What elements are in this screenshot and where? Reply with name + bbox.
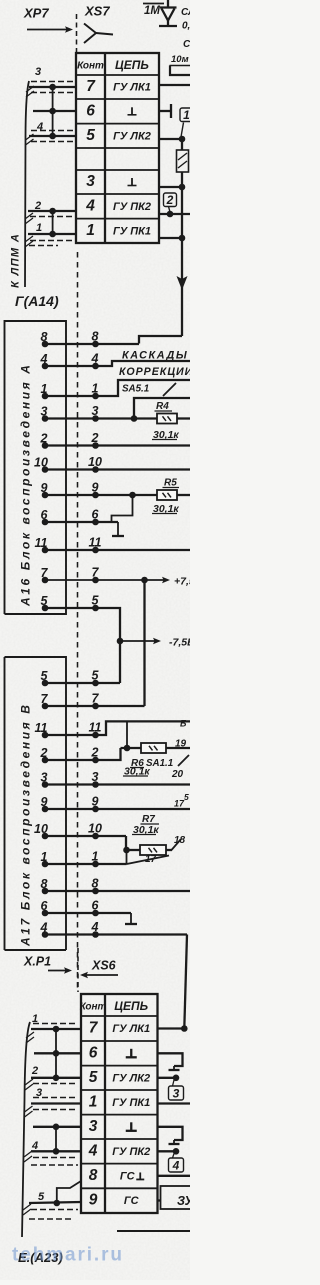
table XS6 row 5 ГУ ЛК2: [89, 1069, 150, 1086]
wire tag 1: [180, 108, 193, 137]
svg-text:ГУ ЛК2: ГУ ЛК2: [112, 1072, 150, 1084]
wire row4 ГУ ПК2 to right edge: [159, 211, 190, 218]
signal wire down to КАСКАДЫ (arrow): [139, 238, 188, 344]
label Е.(А23): [18, 1250, 63, 1265]
cable trunk (bottom): [22, 1022, 30, 1237]
value R5 30,1к: [152, 503, 179, 515]
table XS6 row 6 ⊥: [89, 1044, 137, 1061]
table XS7 row 7 ГУ ЛК1: [86, 78, 151, 95]
svg-text:А17 Блок воспроизведения В: А17 Блок воспроизведения В: [19, 702, 33, 947]
resistor R6: [141, 743, 190, 753]
wire A16 pin8 (from КАСКАДЫ line): [42, 341, 139, 348]
pin 3 (A17) labels: [41, 770, 99, 785]
label А16 Блок воспроизведения А: [19, 362, 33, 607]
shielded wire pin4 to row4: [31, 1148, 81, 1158]
shield link B: [52, 211, 54, 234]
svg-text:КАСКАДЫ: КАСКАДЫ: [122, 350, 188, 362]
table XS6 row 7 ГУ ЛК1: [89, 1020, 150, 1037]
svg-text:Б: Б: [180, 719, 187, 729]
wire A16 pin11: [42, 547, 190, 554]
shielded wire pin2 to row4: [28, 208, 76, 217]
svg-text:5: 5: [86, 127, 95, 144]
switch SA5.1 label: [122, 383, 176, 396]
svg-text:ГУ ЛК1: ГУ ЛК1: [112, 1023, 150, 1035]
table XS6 header КОНТ/ЦЕПЬ: [80, 999, 149, 1013]
connector XP7 label: [23, 6, 49, 21]
pin 3 (A16) labels: [41, 404, 99, 419]
wire A17 pin11 to SA1.1: [42, 721, 190, 738]
wire A16 pin4 to КАСКАДЫ КОРРЕКЦИИ: [42, 361, 190, 369]
table XS7 row 4 ГУ ПК2: [85, 197, 151, 214]
shield link D: [55, 1127, 57, 1152]
value R6 30,1к: [123, 766, 150, 778]
pin 7 (A17) labels: [41, 692, 100, 707]
wire row6 left (XS6): [34, 1052, 81, 1054]
pin 5 label (XP1): [38, 1191, 45, 1203]
label С2 (cut): [183, 39, 196, 50]
wire A16 pin5 to -7,5V: [42, 605, 124, 683]
contact 17 label (lower): [145, 854, 157, 865]
pin 11 (A16) labels: [35, 536, 102, 551]
table XS6 row 4 ГУ ПК2: [88, 1142, 151, 1159]
wire R7 junction down to pin1: [126, 850, 128, 864]
shielded wire pin1 to row1: [28, 231, 76, 246]
shielded wire pin3 to row1: [31, 1098, 81, 1110]
switch SA1.2 lever to 18: [172, 839, 182, 850]
svg-text:СЛ: СЛ: [181, 7, 190, 18]
resistor R4: [155, 401, 191, 424]
svg-text:2: 2: [166, 193, 174, 207]
resistor on right edge (hatched, cut): [177, 139, 189, 187]
pin 1 (A16) labels: [41, 382, 99, 397]
svg-text:3: 3: [35, 66, 41, 78]
pin 3 label: [35, 66, 41, 78]
pin 3 label (XP1): [36, 1087, 42, 1099]
wire tag 2: [164, 193, 177, 212]
svg-text:17: 17: [145, 854, 157, 865]
svg-text:+7,5В: +7,5В: [174, 576, 190, 588]
table XS7 header КОНТ/ЦЕПЬ: [77, 58, 149, 72]
pin 1 label (XP1): [32, 1013, 38, 1025]
wire A17 pin10 to R7: [42, 833, 172, 855]
shielded wire pin5 to row9: [29, 1202, 81, 1219]
label 0,5 (cut): [182, 21, 196, 32]
pin 4 (A16) labels: [40, 352, 99, 367]
wire row5 ГУ ЛК2: [159, 136, 185, 143]
svg-text:ЦЕПЬ: ЦЕПЬ: [114, 999, 148, 1013]
wire A17 pin8: [42, 888, 190, 895]
pin 9 (A17) labels: [41, 795, 99, 810]
pin 1 (A17) labels: [41, 850, 99, 865]
label R6 SA1.1: [130, 758, 173, 769]
svg-text:ГУ ПК1: ГУ ПК1: [113, 225, 151, 237]
wire A16 pin2: [42, 442, 190, 449]
wire A16 pin9 to R5: [42, 490, 190, 500]
switch lever to 17: [127, 856, 170, 865]
label +7,5В (cut): [174, 576, 203, 588]
wire A16 pin1 to SA5.1: [42, 380, 190, 399]
wire row6 left: [33, 110, 76, 112]
pin 11 (A17) labels: [35, 721, 102, 736]
wire A16 pin3 to R4: [42, 398, 190, 422]
table XS7 row 3 ⊥: [86, 173, 136, 190]
svg-text:ГУ ЛК2: ГУ ЛК2: [113, 130, 151, 142]
label КАСКАДЫ: [122, 350, 188, 362]
shielded wire pin4 to row5: [29, 131, 76, 142]
cable hatch marks: [25, 86, 34, 247]
shielded wire pin2 to row5: [31, 1075, 81, 1084]
contact 19 label: [175, 739, 187, 750]
shielded wire pin1 to row7: [31, 1024, 81, 1033]
connector XP7 plug arrow: [27, 26, 73, 32]
table XS6 row 1 ГУ ПК1: [89, 1093, 151, 1110]
connector XS6 label: [91, 959, 117, 973]
pin 10 (A16) labels: [34, 455, 102, 470]
contact 20 label: [171, 769, 184, 780]
wire row1 ГУ ПК1: [159, 237, 182, 239]
label 10мк (cut): [170, 54, 191, 66]
table XS6 row 3 ⊥: [89, 1118, 137, 1135]
wire XS6 row9 ГС to box: [158, 1199, 161, 1201]
pin 2 (A17) labels: [40, 746, 99, 761]
table XS6 row 9 ГС: [89, 1192, 140, 1209]
wire A17 pin5 (-7,5V): [42, 680, 120, 687]
wire A17 pin1: [42, 861, 127, 868]
resistor value 1М (cut): [143, 4, 164, 18]
wire A17 pin4 down to XS6 row7: [42, 931, 187, 1028]
connector XS6 mating dashed line: [77, 948, 79, 992]
pin 8 (A17) labels: [41, 877, 99, 892]
pin 4 label: [36, 121, 43, 133]
svg-text:2: 2: [31, 1065, 38, 1077]
svg-text:ХР7: ХР7: [23, 6, 49, 21]
pin 9 (A16) labels: [41, 481, 99, 496]
svg-text:ЗУ: ЗУ: [177, 1194, 190, 1208]
wire from 10мк stub to right edge: [170, 66, 190, 76]
table XS7 row 5 ГУ ЛК2: [86, 127, 151, 144]
table XS7 frame: [76, 53, 159, 243]
connector XP1 plug arrow: [48, 967, 72, 973]
wire R5 return to ground pin6: [112, 495, 133, 522]
table XS7 row 1 ГУ ПК1: [86, 222, 151, 239]
pin 10 (A17) labels: [34, 822, 102, 837]
pin 2 (A16) labels: [40, 431, 99, 446]
svg-text:К ЛПМ А: К ЛПМ А: [10, 233, 22, 288]
label -7,5В (cut): [169, 637, 195, 649]
svg-text:ГС: ГС: [120, 1170, 136, 1182]
pin 8 (A16) labels: [41, 330, 99, 345]
wire A17 pin7 (+7,5V): [42, 703, 145, 710]
wire XS6 row4 tag 4: [158, 1148, 184, 1173]
block A16 boundary: [5, 321, 67, 614]
label СЛ (cut): [181, 7, 196, 18]
contact mark 5 (cut): [184, 792, 189, 802]
svg-text:5: 5: [38, 1191, 45, 1203]
wire junction to row1: [179, 187, 186, 241]
switch SA1.1 lever: [178, 755, 189, 766]
pin 5 (A16) labels: [41, 594, 100, 609]
pin 2 label: [34, 200, 41, 212]
wire A16 pin7 to +7,5V: [42, 577, 170, 584]
wire -7,5V feed: [120, 638, 161, 644]
svg-text:Конт: Конт: [80, 1002, 107, 1013]
shield link C: [53, 1029, 60, 1078]
svg-text:4: 4: [88, 1142, 98, 1159]
wire XS6 row7: [158, 1025, 188, 1032]
wire XS6 row1 ГУ ПК1: [158, 1102, 191, 1104]
value R7 30,1к: [132, 824, 159, 836]
svg-text:Конт: Конт: [77, 61, 104, 72]
wire row3 left (XS6): [33, 1124, 81, 1131]
svg-text:tehmari.ru: tehmari.ru: [12, 1245, 124, 1266]
svg-text:20: 20: [171, 769, 184, 780]
wire row7 ГУ ЛК1 to right edge: [159, 84, 190, 86]
watermark tehmari.ru: [12, 1245, 124, 1266]
svg-text:ГС: ГС: [124, 1195, 140, 1207]
svg-text:3: 3: [89, 1118, 98, 1135]
connector dashed line (А16/А17 to X): [77, 252, 79, 992]
pin 4 (A17) labels: [40, 920, 99, 935]
connector XS7 socket arrow: [84, 24, 113, 44]
wire XS6 row5 tag 3: [158, 1075, 184, 1101]
svg-text:6: 6: [86, 102, 95, 119]
resistor R5 label: [163, 478, 180, 489]
connector XS7 mating dashed line: [76, 14, 78, 52]
wire +7,5V rail down to pin7 A17: [143, 580, 145, 706]
svg-text:19: 19: [175, 739, 187, 750]
pin 6 (A17) labels: [41, 899, 100, 914]
pin 4 label (XP1): [31, 1140, 38, 1152]
cable trunk to ЛПМ: [25, 81, 29, 287]
svg-text:6: 6: [89, 1044, 98, 1061]
svg-text:А16 Блок воспроизведения А: А16 Блок воспроизведения А: [19, 362, 33, 607]
svg-text:SA5.1: SA5.1: [122, 384, 149, 395]
svg-text:XS6: XS6: [91, 959, 117, 973]
svg-text:С2: С2: [183, 39, 190, 50]
svg-text:7: 7: [86, 78, 96, 95]
svg-text:10м: 10м: [171, 54, 189, 65]
svg-text:7: 7: [89, 1020, 99, 1037]
pin 2 label (XP1): [31, 1065, 38, 1077]
pin 7 (A16) labels: [41, 566, 100, 581]
svg-text:9: 9: [89, 1192, 98, 1209]
svg-text:1: 1: [183, 108, 190, 122]
wire row6 ground stub: [159, 104, 171, 118]
cable hatch marks (bottom): [23, 1032, 34, 1215]
svg-text:1: 1: [36, 222, 42, 234]
contact mark (cut): [180, 719, 187, 729]
shielded wire pin3 to row7: [29, 82, 76, 93]
block A17 boundary: [5, 657, 67, 950]
shield link A: [49, 87, 56, 136]
svg-text:ГУ ПК2: ГУ ПК2: [112, 1146, 150, 1158]
value R4 30,1к: [152, 429, 179, 441]
resistor R7 label: [141, 814, 160, 825]
ground symbol (A16 pin6): [112, 522, 124, 536]
pin 1 label: [36, 222, 42, 234]
svg-text:4: 4: [172, 1159, 180, 1173]
svg-text:1: 1: [89, 1093, 98, 1110]
connector XS6 socket arrow: [80, 972, 118, 978]
svg-text:-7,5В: -7,5В: [169, 637, 190, 649]
contact 18 label: [174, 835, 186, 846]
svg-text:3: 3: [173, 1087, 180, 1101]
svg-text:XS7: XS7: [84, 4, 110, 19]
svg-text:1: 1: [86, 222, 95, 239]
svg-text:1М: 1М: [144, 5, 160, 17]
connector XP1 label: [23, 955, 51, 969]
svg-text:4: 4: [85, 197, 95, 214]
wire A16 pin10: [42, 466, 190, 473]
label Г(А14): [15, 293, 59, 309]
wire XS6 row6 to ground: [158, 1053, 183, 1070]
label КОРРЕКЦИИ: [119, 366, 193, 378]
wire A17 pin6 to ground: [42, 910, 131, 917]
wire A17 pin9 to contact 17: [42, 806, 190, 813]
svg-text:Г(А14): Г(А14): [15, 293, 59, 309]
frame line (cut, bottom right): [117, 1230, 190, 1232]
svg-text:8: 8: [89, 1167, 98, 1184]
connector XS7 label: [84, 4, 110, 19]
svg-text:КОРРЕКЦИИ: КОРРЕКЦИИ: [119, 366, 190, 378]
component box (cut, bottom right): [161, 1186, 195, 1209]
svg-text:Х.Р1: Х.Р1: [23, 955, 51, 969]
wire row8 link: [54, 1181, 82, 1206]
svg-text:ГУ ПК1: ГУ ПК1: [112, 1097, 150, 1109]
svg-text:SA1.1: SA1.1: [146, 758, 173, 769]
svg-text:17: 17: [174, 799, 185, 809]
svg-text:ГУ ПК2: ГУ ПК2: [113, 201, 151, 213]
ground symbol (A17 pin6): [125, 913, 137, 924]
pin 6 (A16) labels: [41, 508, 100, 523]
shield dashes ГС: [31, 1164, 78, 1166]
pin 5 (A17) labels: [41, 669, 100, 684]
svg-text:ГУ ЛК1: ГУ ЛК1: [113, 82, 151, 94]
capacitor C (electrolytic, cut): [159, 0, 177, 26]
wire A16 pin6 to ground: [42, 519, 118, 526]
contact 17 label: [174, 799, 185, 809]
svg-text:5: 5: [184, 792, 189, 802]
label К ЛПМ А: [10, 233, 22, 288]
svg-text:0,5: 0,5: [182, 21, 190, 32]
table XS6 row 8 ГС ⊥: [89, 1167, 145, 1184]
wire row3 ground to resistor: [159, 184, 185, 191]
table XS6 frame: [81, 994, 158, 1213]
svg-text:3: 3: [86, 173, 95, 190]
wire XS6 row3 to ground: [158, 1127, 183, 1144]
svg-text:ЦЕПЬ: ЦЕПЬ: [115, 58, 149, 72]
wire A17 pin3: [42, 781, 190, 788]
table XS7 row 6 ⊥: [86, 102, 136, 119]
wire A17 pin2 to R6: [42, 721, 141, 763]
label А17 Блок воспроизведения В: [19, 702, 33, 947]
svg-text:5: 5: [89, 1069, 98, 1086]
wire XS6 row8 ГС⊥: [158, 1175, 191, 1177]
